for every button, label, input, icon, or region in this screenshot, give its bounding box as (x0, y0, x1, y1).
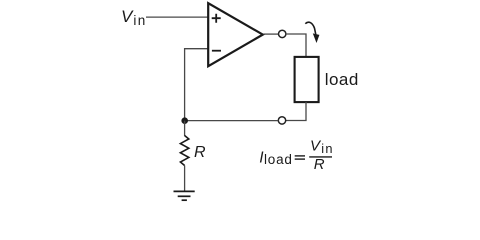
equation Iload = Vin / R (259, 137, 333, 173)
op-amp noninverting input marker + (212, 14, 221, 23)
svg-text:in: in (321, 141, 333, 156)
node junction dot (181, 117, 188, 124)
wire Vin to op-amp + input (146, 16, 208, 18)
svg-text:R: R (194, 144, 206, 161)
wire resistor to ground (184, 166, 186, 192)
ground (174, 191, 195, 200)
svg-text:R: R (314, 156, 325, 173)
resistor R (180, 136, 188, 166)
terminal circle output (279, 30, 286, 37)
svg-text:in: in (133, 13, 146, 28)
terminal circle return (278, 117, 285, 124)
op-amp inverting input marker - (212, 50, 221, 52)
op-amp U1 (208, 3, 263, 66)
load resistor box (295, 57, 319, 102)
wire load bottom to lower terminal (286, 102, 306, 121)
label Vin (121, 7, 147, 28)
svg-text:V: V (121, 7, 134, 26)
wire feedback from - input to node (185, 49, 208, 118)
wire lower terminal to node (185, 120, 279, 122)
svg-text:load: load (264, 152, 293, 167)
current arrow (305, 22, 319, 43)
svg-text:load: load (325, 70, 359, 89)
wire output terminal to load top (286, 34, 306, 56)
wire op-amp output to terminal (264, 33, 279, 35)
wire node to resistor R (184, 121, 186, 136)
